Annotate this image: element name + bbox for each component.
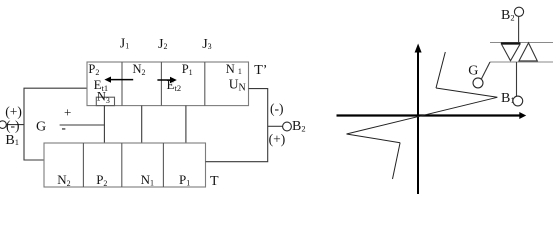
svg-text:(+): (+) (5, 104, 22, 119)
svg-text:N2: N2 (57, 172, 70, 188)
svg-text:+: + (64, 105, 71, 120)
wire triac B1 lead (516, 62, 518, 96)
terminal B1 circle (0, 121, 6, 129)
svg-text:T: T (210, 174, 219, 189)
junction J1 divider (121, 62, 123, 106)
wire middle vertical 2 (141, 106, 143, 143)
curve Q1 negative resistance (436, 88, 497, 97)
svg-text:P1: P1 (182, 62, 193, 77)
svg-text:T’: T’ (254, 63, 267, 78)
triac bottom bar (490, 61, 553, 63)
svg-text:B2: B2 (292, 119, 306, 134)
curve Q3 on-state (393, 143, 401, 179)
box N3 emitter (96, 97, 114, 105)
svg-text:(-): (-) (270, 101, 284, 116)
svg-text:P2: P2 (88, 62, 99, 77)
axis X voltage (337, 112, 527, 119)
wire gate G (60, 124, 105, 126)
wire left loop from T' layer to bottom box (24, 88, 87, 160)
arrow Et2 field (157, 77, 176, 83)
bottom box divider 1 (82, 143, 84, 187)
wire middle vertical 3 (185, 106, 187, 143)
bottom box N2 P2 N1 P1 outline (44, 143, 206, 187)
arrow Et1 field (104, 77, 133, 83)
junction J3 divider (204, 62, 206, 106)
svg-text:J1: J1 (120, 37, 129, 52)
svg-text:(+): (+) (269, 132, 286, 147)
svg-text:P1: P1 (179, 172, 190, 187)
wire right loop from T' to bottom box (206, 89, 268, 162)
wire B1 stub (6, 124, 24, 126)
svg-text:B2: B2 (501, 8, 515, 23)
svg-text:B1: B1 (501, 91, 515, 106)
terminal G circle triac (473, 78, 483, 88)
triac right triangle (519, 43, 537, 61)
bottom box divider 2 (121, 143, 123, 187)
svg-text:G: G (36, 120, 46, 135)
triac left triangle (502, 44, 521, 61)
terminal B2 circle (283, 122, 292, 131)
svg-text:J2: J2 (158, 37, 167, 52)
svg-text:J3: J3 (202, 37, 211, 52)
svg-text:N1: N1 (226, 62, 242, 76)
triac gate thick bar (501, 42, 521, 44)
top box P2 N2 P1 N1 outline (87, 62, 249, 106)
curve Q1 on-state (436, 52, 445, 88)
svg-text:P2: P2 (96, 172, 107, 188)
wire triac B2 lead (518, 16, 520, 42)
wire triac gate lead (482, 62, 491, 79)
axis Y current (415, 44, 422, 195)
curve Q3 negative resistance (347, 134, 401, 143)
svg-text:G: G (468, 64, 478, 79)
svg-text:UN: UN (229, 77, 246, 94)
svg-text:Et2: Et2 (167, 77, 182, 93)
svg-text:N1: N1 (141, 172, 154, 187)
terminal B1 circle triac (513, 96, 523, 106)
wire B2 stub (268, 125, 283, 127)
svg-text:N2: N2 (133, 62, 146, 77)
terminal B2 circle triac (514, 7, 523, 16)
wire middle vertical 1 (103, 106, 105, 143)
svg-text:B1: B1 (5, 133, 19, 148)
bottom box divider 3 (162, 143, 164, 187)
triac top bar (490, 42, 553, 44)
junction J2 divider (160, 62, 162, 106)
curve leakage line through origin (347, 97, 498, 134)
svg-text:(-): (-) (6, 118, 20, 133)
svg-text:-: - (62, 120, 66, 135)
